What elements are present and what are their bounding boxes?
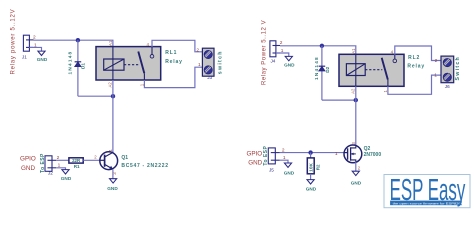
- svg-text:GND: GND: [284, 171, 295, 176]
- svg-text:GND: GND: [61, 176, 72, 181]
- svg-text:GPIO: GPIO: [246, 150, 262, 157]
- svg-text:switch: switch: [217, 50, 223, 74]
- svg-text:1: 1: [335, 151, 338, 157]
- svg-text:J2: J2: [48, 171, 53, 176]
- svg-text:RL1: RL1: [165, 50, 177, 56]
- svg-text:22R: 22R: [72, 158, 81, 163]
- svg-text:Relay: Relay: [407, 63, 425, 69]
- svg-text:1N4148: 1N4148: [314, 56, 319, 80]
- svg-text:GND: GND: [248, 160, 262, 167]
- svg-text:Switch: Switch: [455, 56, 461, 81]
- svg-text:J1: J1: [22, 54, 27, 59]
- svg-text:J6: J6: [445, 84, 450, 89]
- svg-text:10K: 10K: [309, 162, 315, 171]
- svg-text:GND: GND: [107, 186, 118, 191]
- svg-text:Relay: Relay: [165, 59, 183, 65]
- svg-text:R1: R1: [74, 164, 80, 169]
- svg-text:1N4148: 1N4148: [67, 51, 72, 75]
- svg-text:Q1: Q1: [121, 155, 128, 161]
- svg-text:ESP Easy: ESP Easy: [390, 173, 466, 208]
- svg-text:Q2: Q2: [364, 146, 371, 152]
- svg-text:GND: GND: [284, 63, 295, 68]
- svg-text:BC547 - 2N2222: BC547 - 2N2222: [121, 163, 168, 169]
- svg-text:J4: J4: [271, 59, 276, 64]
- svg-text:D2: D2: [325, 66, 330, 72]
- svg-text:GND: GND: [306, 187, 317, 192]
- svg-text:RL2: RL2: [408, 55, 420, 61]
- svg-text:GND: GND: [21, 165, 35, 172]
- svg-text:A2: A2: [351, 88, 356, 94]
- svg-text:GPIO: GPIO: [20, 156, 36, 163]
- svg-text:1: 1: [198, 62, 201, 68]
- svg-text:A1: A1: [351, 48, 356, 54]
- svg-text:D1: D1: [80, 63, 85, 69]
- svg-text:2N7000: 2N7000: [364, 152, 382, 158]
- svg-text:2: 2: [196, 48, 199, 54]
- svg-text:2: 2: [435, 58, 438, 64]
- svg-text:Relay power 5..12V: Relay power 5..12V: [11, 9, 17, 75]
- svg-text:GND: GND: [351, 180, 362, 185]
- svg-text:R2: R2: [315, 164, 320, 170]
- svg-text:J5: J5: [269, 168, 274, 173]
- svg-text:A2: A2: [108, 82, 113, 88]
- svg-text:Relay Power 5..12 V: Relay Power 5..12 V: [262, 20, 268, 85]
- svg-text:A1: A1: [108, 40, 113, 46]
- svg-text:GND: GND: [37, 57, 48, 62]
- svg-text:1: 1: [434, 72, 437, 78]
- svg-text:J3: J3: [207, 75, 212, 80]
